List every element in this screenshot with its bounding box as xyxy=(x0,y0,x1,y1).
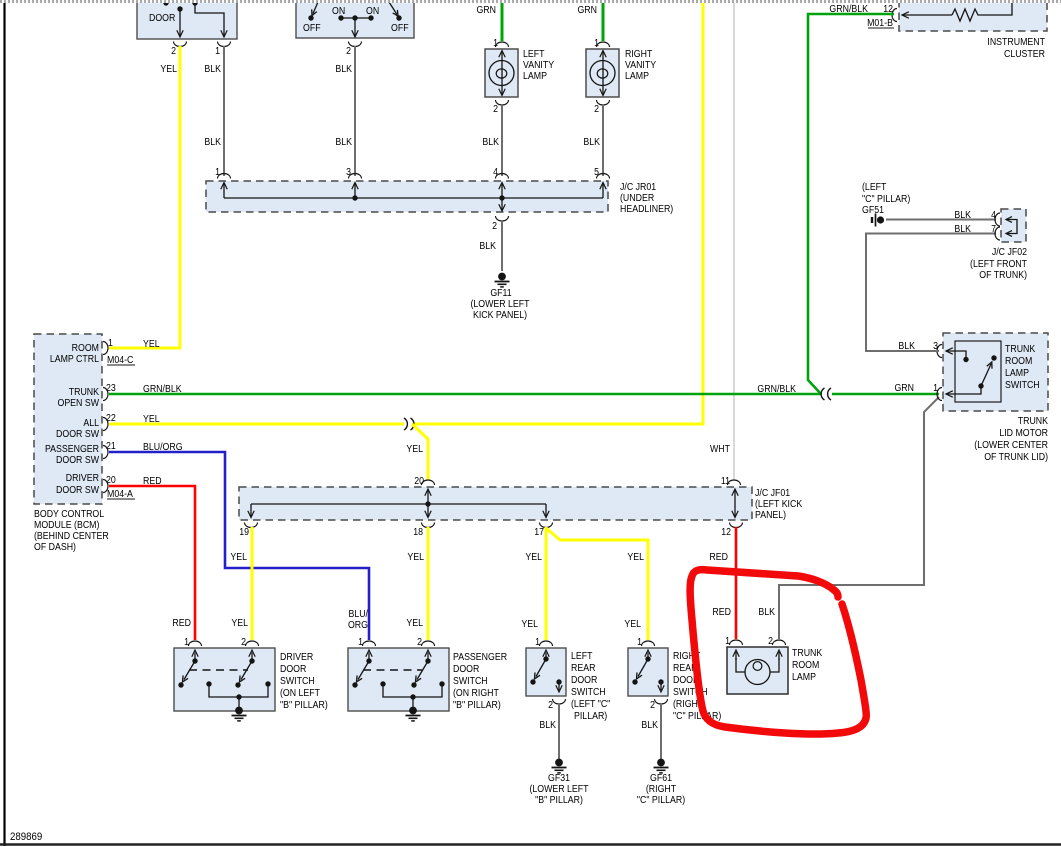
svg-text:ROOM: ROOM xyxy=(1005,354,1032,366)
wire YEL branch down to J/C JF01 pin 20 xyxy=(412,424,428,480)
svg-text:BLK: BLK xyxy=(335,62,352,74)
wire YEL J/C JF01 pin 19 to driver door switch pin 2 xyxy=(251,527,254,640)
svg-text:YEL: YEL xyxy=(143,412,160,424)
ground GF31 (lower left "B" pillar) xyxy=(555,759,563,767)
wire BLU/ORG BCM pin 21 to passenger door switch pin 1 xyxy=(109,452,369,640)
junction connector J/C JR01 pin 1 xyxy=(218,174,231,179)
wire BLK to J/C JF02 pin 7 and down to trunk room lamp switch pin 3 xyxy=(866,234,996,352)
svg-text:4: 4 xyxy=(991,208,996,220)
J/C JF01 pin 20 xyxy=(422,480,435,485)
svg-text:ON: ON xyxy=(366,4,379,16)
svg-text:TRUNK: TRUNK xyxy=(792,646,823,658)
svg-text:"B" PILLAR): "B" PILLAR) xyxy=(280,698,328,710)
J/C JF01 pin 12 xyxy=(730,523,743,528)
right vanity lamp pin 1 xyxy=(597,42,610,47)
svg-text:"B" PILLAR): "B" PILLAR) xyxy=(453,698,501,710)
svg-text:21: 21 xyxy=(106,439,116,451)
wire WHT from top to J/C JF01 pin 11 xyxy=(733,0,735,480)
svg-text:TRUNK: TRUNK xyxy=(1018,414,1049,426)
svg-text:SWITCH: SWITCH xyxy=(280,674,315,686)
svg-text:J/C JF02: J/C JF02 xyxy=(992,245,1027,257)
switch: right rear door (right "C" pillar) xyxy=(628,648,668,696)
svg-text:INSTRUMENT: INSTRUMENT xyxy=(987,35,1045,47)
svg-text:(LEFT "C": (LEFT "C" xyxy=(571,697,610,709)
svg-text:OFF: OFF xyxy=(303,21,321,33)
left rear door switch pin 2 xyxy=(553,699,566,704)
svg-text:1: 1 xyxy=(358,635,363,647)
ground GF61 (right "C" pillar) xyxy=(657,759,665,767)
trunk room lamp pin 2 xyxy=(773,640,786,645)
ground at passenger door switch xyxy=(409,707,417,715)
instrument cluster xyxy=(899,0,1047,31)
BCM pin 23 (TRUNK OPEN SW) xyxy=(103,388,108,401)
wire YEL from DOOR pin 2 to BCM pin 1 xyxy=(109,46,180,348)
overhead console DOOR lamp switch xyxy=(137,0,237,39)
wire YEL BCM pin 22 (all door sw) xyxy=(109,423,404,426)
ground at driver door switch xyxy=(235,707,243,715)
svg-text:M01-B: M01-B xyxy=(867,16,893,28)
svg-text:OF TRUNK LID): OF TRUNK LID) xyxy=(984,450,1048,462)
svg-text:7: 7 xyxy=(991,222,996,234)
svg-text:REAR: REAR xyxy=(571,661,596,673)
driver door switch pin 1 xyxy=(189,641,202,646)
svg-text:YEL: YEL xyxy=(521,617,538,629)
svg-text:SWITCH: SWITCH xyxy=(1005,378,1040,390)
svg-text:PILLAR): PILLAR) xyxy=(574,709,607,721)
svg-text:GF31: GF31 xyxy=(548,771,570,783)
wire RED BCM pin 20 to driver door switch pin 1 xyxy=(109,486,195,640)
svg-text:3: 3 xyxy=(346,165,351,177)
svg-text:ROOM: ROOM xyxy=(792,658,819,670)
J/C JR01 pin 5 xyxy=(597,174,610,179)
svg-text:2: 2 xyxy=(492,219,497,231)
svg-text:WHT: WHT xyxy=(710,442,730,454)
svg-text:BLK: BLK xyxy=(204,62,221,74)
wire YEL J/C JF01 pin 18 to passenger door switch pin 2 xyxy=(427,527,430,640)
svg-text:2: 2 xyxy=(650,698,655,710)
wire YEL from top joining BCM all-door-switch wire xyxy=(412,0,703,424)
svg-text:J/C JF01: J/C JF01 xyxy=(755,486,790,498)
lamp: trunk room lamp xyxy=(727,647,788,694)
svg-text:20: 20 xyxy=(414,474,424,486)
svg-text:GRN: GRN xyxy=(577,3,597,15)
svg-text:ROOM: ROOM xyxy=(72,341,99,353)
right rear door switch pin 2 xyxy=(655,699,668,704)
svg-text:YEL: YEL xyxy=(525,550,542,562)
svg-text:2: 2 xyxy=(171,44,176,56)
junction connector J/C JF02 (left front of trunk) xyxy=(1001,209,1026,242)
svg-text:TRUNK: TRUNK xyxy=(69,385,100,397)
svg-text:PANEL): PANEL) xyxy=(755,508,786,520)
svg-text:BLK: BLK xyxy=(539,718,556,730)
svg-text:BLK: BLK xyxy=(583,135,600,147)
DOOR switch pin 2 xyxy=(174,42,187,47)
svg-text:M04-A: M04-A xyxy=(107,487,134,499)
svg-text:BLK: BLK xyxy=(204,135,221,147)
svg-text:BLK: BLK xyxy=(482,135,499,147)
svg-text:RED: RED xyxy=(143,474,162,486)
svg-text:22: 22 xyxy=(106,411,116,423)
resistor (illuminated entry) inside instrument cluster xyxy=(952,0,1012,21)
svg-text:GRN: GRN xyxy=(476,3,496,15)
svg-text:PASSENGER: PASSENGER xyxy=(453,650,507,662)
svg-text:LAMP: LAMP xyxy=(523,69,547,81)
svg-text:VANITY: VANITY xyxy=(523,58,555,70)
svg-text:BLK: BLK xyxy=(479,239,496,251)
wire BLK from ON/OFF switch pin 2 to J/C JR01 pin 3 xyxy=(354,46,356,176)
svg-text:(ON RIGHT: (ON RIGHT xyxy=(453,686,499,698)
svg-text:(LOWER CENTER: (LOWER CENTER xyxy=(974,438,1048,450)
wire harness frame left border xyxy=(3,2,5,846)
junction connector J/C JR01 (under headliner) xyxy=(206,181,608,212)
svg-text:J/C JR01: J/C JR01 xyxy=(620,180,656,192)
svg-text:1: 1 xyxy=(933,381,938,393)
svg-text:BLK: BLK xyxy=(641,718,658,730)
passenger door switch pin 1 xyxy=(363,641,376,646)
svg-text:(UNDER: (UNDER xyxy=(620,191,654,203)
BCM pin 20 (DRIVER DOOR SW), connector M04-A xyxy=(103,480,108,493)
svg-text:2: 2 xyxy=(548,698,553,710)
svg-text:(LEFT FRONT: (LEFT FRONT xyxy=(970,257,1027,269)
svg-text:PASSENGER: PASSENGER xyxy=(45,442,99,454)
svg-text:2: 2 xyxy=(493,102,498,114)
right vanity lamp pin 2 xyxy=(597,100,610,105)
svg-text:GF51: GF51 xyxy=(862,203,884,215)
svg-text:BLK: BLK xyxy=(758,605,775,617)
svg-text:SWITCH: SWITCH xyxy=(571,685,606,697)
svg-text:LAMP: LAMP xyxy=(625,69,649,81)
J/C JR01 pin 4 xyxy=(496,174,509,179)
wire BLK ground GF51 to J/C JF02 pin 4 xyxy=(886,219,996,221)
junction connector J/C JF01 (left kick panel) xyxy=(239,487,752,520)
passenger door switch pin 2 xyxy=(422,641,435,646)
svg-text:OF TRUNK): OF TRUNK) xyxy=(979,268,1027,280)
svg-text:GRN/BLK: GRN/BLK xyxy=(757,382,796,394)
splice break on YEL wire xyxy=(404,418,414,430)
J/C JF01 pin 17 xyxy=(540,523,553,528)
svg-text:18: 18 xyxy=(413,525,423,537)
body control module BCM (behind center of dash) xyxy=(34,334,102,504)
J/C JR01 pin 3 xyxy=(349,174,362,179)
svg-text:ON: ON xyxy=(332,4,345,16)
svg-text:"B" PILLAR): "B" PILLAR) xyxy=(535,793,583,805)
svg-text:"C" PILLAR): "C" PILLAR) xyxy=(637,793,685,805)
svg-text:YEL: YEL xyxy=(160,62,177,74)
svg-text:"C" PILLAR): "C" PILLAR) xyxy=(673,709,721,721)
wire RED J/C JF01 pin 12 to trunk room lamp pin 1 xyxy=(735,527,738,639)
svg-text:(LOWER LEFT: (LOWER LEFT xyxy=(529,782,588,794)
svg-text:GF61: GF61 xyxy=(650,771,672,783)
trunk room lamp switch (in trunk lid motor) xyxy=(943,333,1048,411)
ON/OFF switch pin 2 xyxy=(349,42,362,47)
svg-text:(RIGHT: (RIGHT xyxy=(646,782,677,794)
svg-text:1: 1 xyxy=(493,36,498,48)
wire BLK right vanity lamp to J/C JR01 pin 5 xyxy=(602,104,604,176)
svg-text:DOOR: DOOR xyxy=(453,662,480,674)
svg-text:DOOR SW: DOOR SW xyxy=(56,453,99,465)
svg-text:BODY CONTROL: BODY CONTROL xyxy=(34,507,104,519)
wire BLK left rear door switch to ground GF31 xyxy=(558,703,560,759)
svg-text:2: 2 xyxy=(417,635,422,647)
svg-text:ALL: ALL xyxy=(83,416,99,428)
svg-text:2: 2 xyxy=(594,102,599,114)
svg-text:2: 2 xyxy=(346,44,351,56)
switch: driver door (on left "B" pillar) xyxy=(174,648,275,711)
svg-text:12: 12 xyxy=(883,2,893,14)
frame bottom border xyxy=(0,843,1061,846)
svg-text:BLK: BLK xyxy=(335,135,352,147)
svg-text:17: 17 xyxy=(534,525,544,537)
svg-text:ORG: ORG xyxy=(348,618,368,630)
svg-text:1: 1 xyxy=(184,635,189,647)
svg-text:YEL: YEL xyxy=(406,616,423,628)
map lamp ON/OFF switch xyxy=(296,0,414,38)
svg-text:DRIVER: DRIVER xyxy=(280,650,313,662)
trunk room lamp pin 1 xyxy=(730,640,743,645)
svg-text:YEL: YEL xyxy=(407,550,424,562)
svg-text:GRN/BLK: GRN/BLK xyxy=(143,382,182,394)
left vanity lamp pin 2 xyxy=(496,100,509,105)
svg-text:3: 3 xyxy=(933,339,938,351)
wire BLK from DOOR pin 1 to J/C JR01 pin 1 xyxy=(223,46,225,176)
svg-text:YEL: YEL xyxy=(230,550,247,562)
svg-text:BLU/ORG: BLU/ORG xyxy=(143,440,183,452)
svg-text:YEL: YEL xyxy=(406,442,423,454)
svg-text:DRIVER: DRIVER xyxy=(66,471,99,483)
svg-text:DOOR SW: DOOR SW xyxy=(56,427,99,439)
J/C JF01 pin 19 xyxy=(245,523,258,528)
left rear door switch pin 1 xyxy=(540,641,553,646)
svg-text:DOOR: DOOR xyxy=(280,662,307,674)
splice break on GRN/BLK wire xyxy=(821,388,831,400)
wire GRN to right vanity lamp pin 1 xyxy=(602,0,605,41)
wire BLK right rear door switch to ground GF61 xyxy=(660,703,662,759)
wire GRN to trunk room lamp switch pin 1 xyxy=(832,393,939,396)
svg-text:1: 1 xyxy=(108,336,113,348)
svg-text:HEADLINER): HEADLINER) xyxy=(620,202,673,214)
trunk room lamp switch pin 1 xyxy=(937,388,942,401)
svg-text:CLUSTER: CLUSTER xyxy=(1004,47,1045,59)
svg-text:LEFT: LEFT xyxy=(571,649,593,661)
J/C JR01 pin 2 xyxy=(496,216,509,221)
BCM pin 22 (ALL DOOR SW) xyxy=(103,418,108,431)
svg-text:BLK: BLK xyxy=(954,208,971,220)
svg-text:(BEHIND CENTER: (BEHIND CENTER xyxy=(34,529,109,541)
svg-text:LEFT: LEFT xyxy=(523,47,545,59)
BCM pin 1 (ROOM LAMP CTRL), connector M04-C xyxy=(103,342,108,355)
wire GRN/BLK instrument cluster pin 12 down to trunk area xyxy=(808,14,894,394)
svg-text:20: 20 xyxy=(106,473,116,485)
wire BLK left vanity lamp to J/C JR01 pin 4 xyxy=(501,104,503,176)
wire BLK J/C JR01 pin 2 to ground GF11 xyxy=(501,220,503,271)
switch: left rear door (left "C" pillar) xyxy=(526,648,566,696)
svg-text:DOOR SW: DOOR SW xyxy=(56,483,99,495)
svg-text:RED: RED xyxy=(172,616,191,628)
svg-text:(LEFT KICK: (LEFT KICK xyxy=(755,497,803,509)
svg-text:BLK: BLK xyxy=(898,339,915,351)
svg-text:GF11: GF11 xyxy=(490,286,511,298)
svg-text:(LEFT: (LEFT xyxy=(862,180,887,192)
wire BLK trunk room lamp pin 2 to trunk room lamp switch pin 1 xyxy=(779,397,939,639)
svg-text:11: 11 xyxy=(721,474,730,486)
svg-text:LAMP: LAMP xyxy=(792,670,816,682)
svg-text:KICK PANEL): KICK PANEL) xyxy=(473,308,527,320)
ground GF11 (lower left kick panel) xyxy=(498,273,506,281)
red annotation loop around trunk room lamp xyxy=(690,570,866,734)
svg-text:YEL: YEL xyxy=(231,616,248,628)
lamp left vanity xyxy=(485,49,518,97)
svg-text:OPEN SW: OPEN SW xyxy=(57,396,99,408)
svg-text:M04-C: M04-C xyxy=(107,353,134,365)
svg-text:4: 4 xyxy=(493,165,498,177)
svg-text:YEL: YEL xyxy=(627,550,644,562)
svg-text:DOOR: DOOR xyxy=(571,673,598,685)
svg-text:BLU/: BLU/ xyxy=(348,607,368,619)
J/C JF02 pin 7 xyxy=(995,227,1000,240)
svg-text:MODULE (BCM): MODULE (BCM) xyxy=(34,518,99,530)
instrument cluster pin 12, connector M01-B xyxy=(892,9,897,22)
wire GRN to left vanity lamp pin 1 xyxy=(501,0,504,41)
svg-text:RIGHT: RIGHT xyxy=(625,47,653,59)
trunk room lamp switch pin 3 xyxy=(937,345,942,358)
svg-text:OF DASH): OF DASH) xyxy=(34,540,76,552)
J/C JF01 pin 11 xyxy=(728,480,741,485)
svg-text:289869: 289869 xyxy=(10,832,43,844)
svg-text:LID MOTOR: LID MOTOR xyxy=(999,426,1048,438)
wire YEL branch to right rear door switch pin 1 xyxy=(546,528,648,640)
switch: passenger door (on right "B" pillar) xyxy=(348,648,449,711)
svg-text:2: 2 xyxy=(241,635,246,647)
svg-text:LAMP: LAMP xyxy=(1005,366,1029,378)
svg-text:RED: RED xyxy=(712,605,731,617)
BCM pin 21 (PASSENGER DOOR SW) xyxy=(103,446,108,459)
svg-text:SWITCH: SWITCH xyxy=(453,674,488,686)
svg-text:2: 2 xyxy=(768,634,773,646)
svg-text:"C" PILLAR): "C" PILLAR) xyxy=(862,192,910,204)
J/C JF02 pin 4 xyxy=(995,213,1000,226)
svg-text:23: 23 xyxy=(106,381,116,393)
DOOR switch pin 1 xyxy=(218,42,231,47)
svg-text:19: 19 xyxy=(239,525,249,537)
J/C JF01 pin 18 xyxy=(422,523,435,528)
svg-text:(ON LEFT: (ON LEFT xyxy=(280,686,320,698)
svg-text:OFF: OFF xyxy=(391,21,409,33)
svg-text:5: 5 xyxy=(594,165,599,177)
svg-text:YEL: YEL xyxy=(143,337,160,349)
svg-text:VANITY: VANITY xyxy=(625,58,657,70)
wire YEL J/C JF01 pin 17 to left rear door switch pin 1 xyxy=(545,527,548,640)
left vanity lamp pin 1 xyxy=(496,42,509,47)
svg-text:GRN/BLK: GRN/BLK xyxy=(829,2,868,14)
svg-text:LAMP CTRL: LAMP CTRL xyxy=(50,352,99,364)
svg-text:TRUNK: TRUNK xyxy=(1005,342,1036,354)
svg-text:RED: RED xyxy=(709,550,728,562)
svg-text:GRN: GRN xyxy=(894,381,914,393)
svg-text:1: 1 xyxy=(725,634,730,646)
driver door switch pin 2 xyxy=(246,641,259,646)
right rear door switch pin 1 xyxy=(642,641,655,646)
svg-text:(LOWER LEFT: (LOWER LEFT xyxy=(470,297,529,309)
svg-text:1: 1 xyxy=(215,44,220,56)
wire GRN/BLK BCM pin 23 to trunk room lamp switch xyxy=(109,393,821,396)
svg-text:1: 1 xyxy=(637,635,642,647)
svg-text:BLK: BLK xyxy=(954,222,971,234)
svg-text:DOOR: DOOR xyxy=(149,11,176,23)
svg-text:1: 1 xyxy=(215,165,220,177)
svg-text:YEL: YEL xyxy=(624,617,641,629)
svg-text:1: 1 xyxy=(594,36,599,48)
lamp right vanity xyxy=(586,49,619,97)
svg-text:12: 12 xyxy=(721,525,731,537)
svg-text:1: 1 xyxy=(535,635,540,647)
